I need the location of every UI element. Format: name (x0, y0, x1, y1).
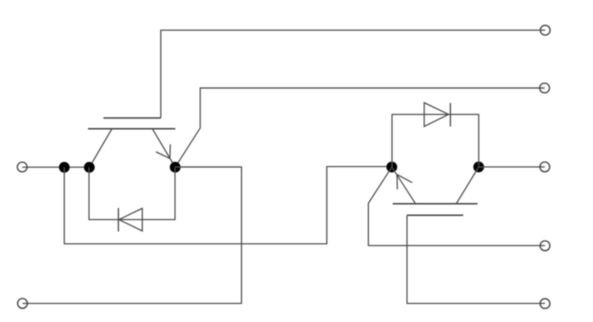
terminal C2 (right middle) (540, 162, 550, 172)
wire aux emitter 1 to terminal (175, 88, 544, 167)
diode D2 cathode bar (449, 103, 451, 127)
wire diode D1 branch (89, 167, 175, 219)
diode D1 triangle (119, 208, 142, 231)
wire diode D2 branch (392, 114, 479, 167)
IGBT T1 emitter arrow (156, 144, 170, 158)
wire left input rail (22, 166, 89, 168)
wire collector2 to terminal C2 (479, 166, 545, 168)
IGBT T2 channel bar (393, 203, 478, 205)
wire emitter1 return to bottom-left terminal (23, 167, 242, 303)
node junction dot 2 (84, 162, 95, 173)
diode D1 cathode bar (117, 208, 119, 232)
terminal G2 (right bottom) (540, 299, 550, 309)
IGBT T2 collector leg (456, 167, 479, 204)
terminal G1 (top right) (540, 25, 550, 35)
wire gate2 to terminal G2 (407, 215, 545, 303)
terminal E1aux (right, second) (540, 83, 550, 93)
node junction dot 1 (59, 162, 70, 173)
wire gate1 to terminal G1 (161, 30, 545, 118)
IGBT T1 gate bar (103, 117, 160, 119)
IGBT T2 emitter arrow (397, 175, 412, 190)
IGBT T2 gate bar (407, 214, 463, 216)
wire aux emitter 2 to terminal (368, 167, 545, 246)
diode D2 triangle (424, 103, 448, 127)
node junction dot E2 (386, 162, 397, 173)
terminal E2aux (right, fourth) (540, 241, 550, 251)
terminal 1 (left middle) (17, 162, 27, 172)
IGBT T1 channel bar (88, 128, 175, 130)
IGBT T1 collector leg (89, 129, 112, 168)
wire node1 to T2 emitter (64, 167, 392, 244)
terminal 2 (left bottom) (18, 299, 28, 309)
node junction dot 3 (170, 162, 181, 173)
IGBT T1 emitter leg (152, 129, 175, 167)
IGBT T2 emitter leg (392, 167, 416, 204)
node junction dot C2 (473, 162, 484, 173)
